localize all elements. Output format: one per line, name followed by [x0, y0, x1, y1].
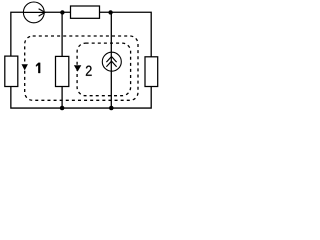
current source J [102, 52, 121, 71]
mesh loop 2 label 2 [86, 66, 92, 76]
junction node d (bottom right) [109, 106, 114, 111]
resistor R1 top [71, 6, 100, 18]
junction node a (top middle) [60, 10, 64, 14]
mesh loop 1 label 1 [36, 63, 40, 73]
mesh loop 1 current direction arrow [22, 64, 28, 70]
mesh loop 2 dashed boundary [77, 43, 131, 96]
wire middle branch [61, 12, 63, 108]
mesh loop 2 current direction arrow [74, 65, 81, 71]
wire current-source branch [110, 12, 112, 108]
EMF source E [23, 2, 45, 23]
junction node c (bottom middle) [60, 106, 65, 111]
wire outer loop rectangle [11, 12, 151, 108]
resistor R3 middle [56, 56, 69, 86]
junction node b (top right of R1) [108, 10, 112, 14]
resistor R2 left [5, 56, 18, 86]
resistor R4 right [145, 57, 158, 87]
mesh loop 1 dashed boundary [25, 36, 138, 100]
